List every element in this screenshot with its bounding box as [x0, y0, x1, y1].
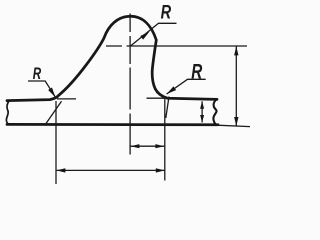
svg-text:R: R — [191, 60, 203, 83]
svg-text:R: R — [33, 64, 42, 83]
svg-text:R: R — [161, 3, 172, 24]
